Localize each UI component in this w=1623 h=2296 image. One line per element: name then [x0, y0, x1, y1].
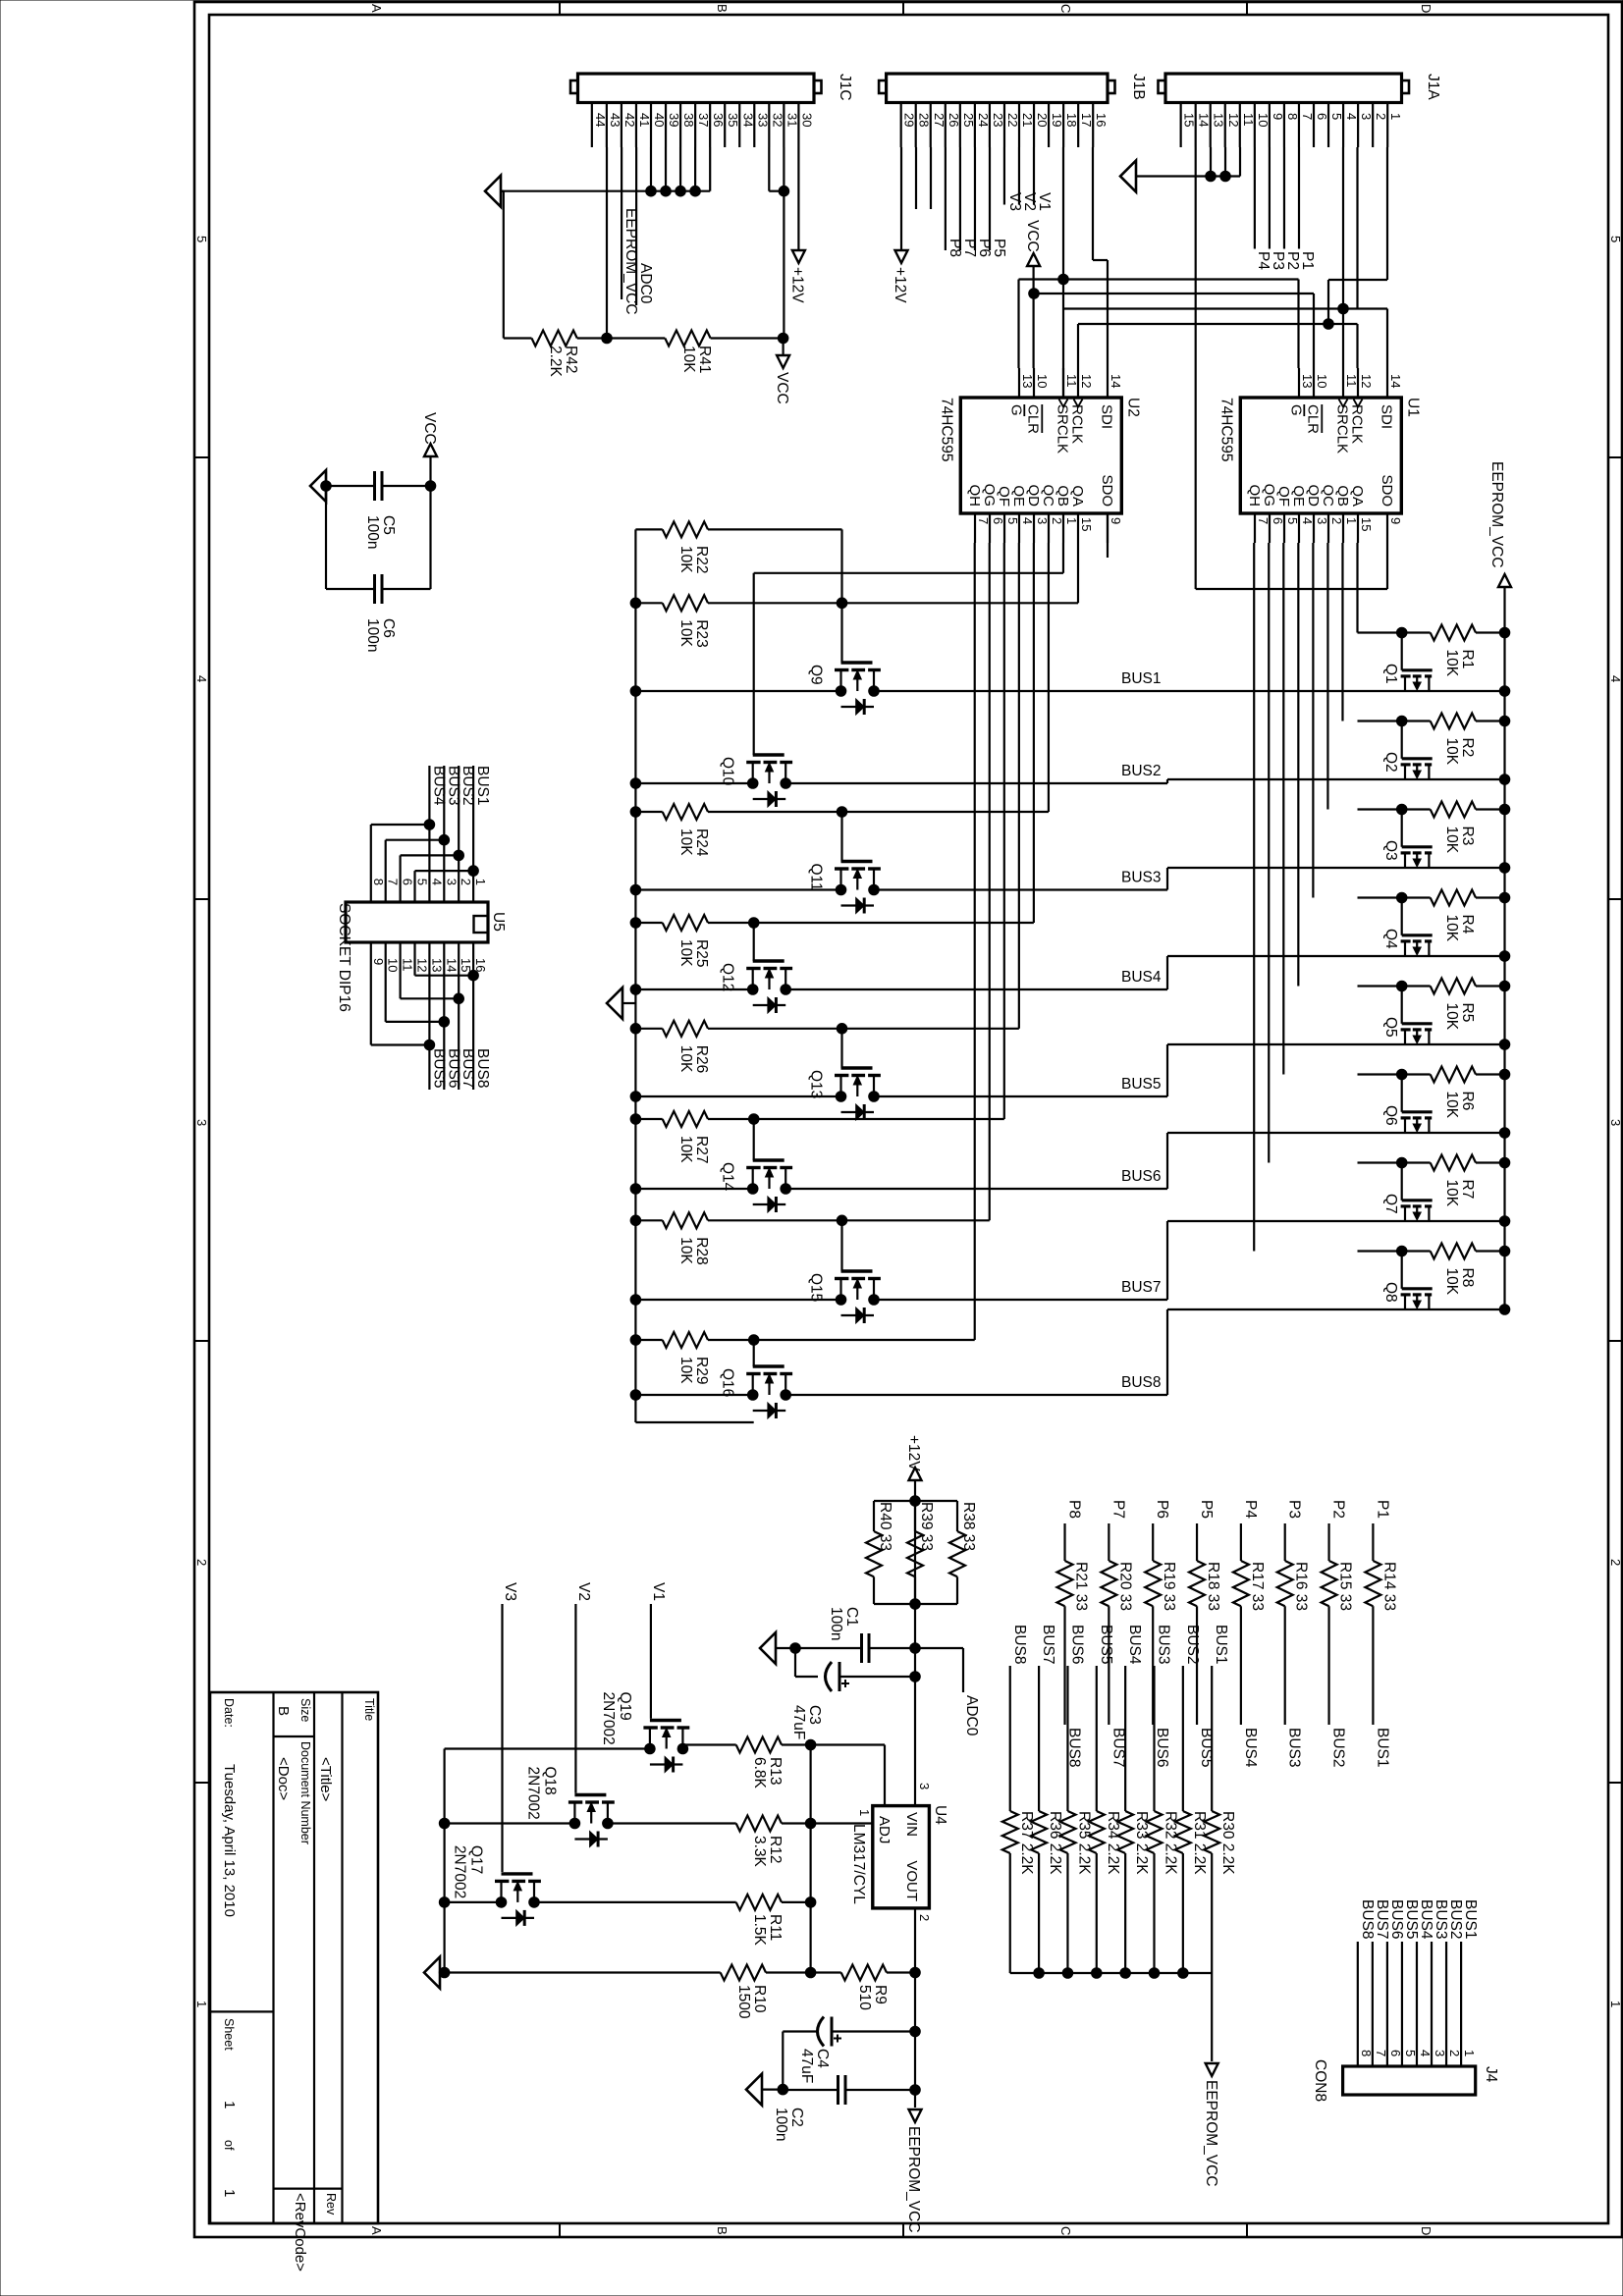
svg-text:Date:: Date:: [222, 1698, 236, 1728]
power +12V arrow: [905, 1435, 922, 1777]
svg-text:26: 26: [947, 113, 961, 127]
wire J1B.18 / U2 SRCLK: [1062, 147, 1064, 398]
transistor Q9: [808, 663, 881, 715]
svg-text:P7: P7: [1109, 1500, 1126, 1519]
svg-text:1: 1: [1344, 517, 1359, 524]
wire source rail Q17-Q19: [439, 1749, 650, 1978]
U5 pin 16: [473, 958, 488, 972]
svg-text:R26: R26: [693, 1045, 710, 1073]
svg-text:42: 42: [622, 113, 637, 127]
svg-text:3: 3: [1035, 517, 1050, 524]
ground arrow below R10: [424, 1957, 440, 1989]
svg-text:R28: R28: [693, 1237, 710, 1264]
wire J1A.4 / U1 SRCLK: [1338, 147, 1349, 368]
svg-text:40: 40: [652, 113, 667, 127]
svg-text:5: 5: [194, 236, 209, 242]
J1C pin 31: [784, 103, 799, 148]
J1B pin 27: [931, 103, 947, 148]
svg-text:10K: 10K: [677, 546, 694, 573]
capacitor C5 100n: [326, 412, 438, 589]
svg-text:SRCLK: SRCLK: [1054, 404, 1070, 454]
resistor R36 2.2K on BUS7: [1031, 1625, 1063, 1973]
svg-text:5: 5: [1005, 517, 1020, 524]
svg-text:R41: R41: [696, 346, 713, 373]
J4 pin 1 BUS1: [1461, 1899, 1479, 2066]
svg-text:16: 16: [473, 958, 488, 972]
junction RCLK rail: [1324, 319, 1334, 330]
U5 pin 6: [401, 879, 415, 885]
svg-text:Q10: Q10: [720, 757, 736, 786]
net label EEPROM_VCC at J1C pin 42: [622, 147, 639, 315]
svg-text:6: 6: [991, 517, 1005, 524]
J1C pin 44: [592, 103, 608, 148]
title block: [210, 1692, 378, 2271]
J1A pin 8: [1284, 103, 1300, 148]
net label P2 at J1A pin 8: [1284, 147, 1301, 270]
J1C pin 36: [710, 103, 726, 148]
transistor Q12: [720, 961, 792, 1013]
net label V2: [575, 1582, 592, 1793]
svg-text:BUS5: BUS5: [1098, 1625, 1114, 1665]
wire U2 QA feed: [842, 543, 1079, 603]
svg-text:U1: U1: [1404, 398, 1421, 417]
svg-text:R15 33: R15 33: [1337, 1562, 1354, 1611]
svg-text:R6: R6: [1459, 1092, 1476, 1111]
svg-text:BUS2: BUS2: [1121, 763, 1162, 779]
net label ADC0 at J1C pin 41: [636, 147, 654, 305]
svg-text:R16 33: R16 33: [1293, 1562, 1310, 1611]
svg-text:2: 2: [194, 1559, 209, 1566]
svg-text:BUS1: BUS1: [1374, 1728, 1390, 1768]
svg-text:ADJ: ADJ: [876, 1816, 893, 1843]
wire BUS8 lower: [630, 1390, 1167, 1401]
svg-text:7: 7: [386, 879, 401, 885]
wire BUS8 jog: [1166, 1309, 1168, 1395]
svg-text:9: 9: [1109, 517, 1123, 524]
svg-text:37: 37: [696, 113, 711, 127]
wire CLR rail: [1029, 289, 1314, 368]
svg-text:EEPROM_VCC: EEPROM_VCC: [905, 2126, 922, 2233]
svg-text:BUS1: BUS1: [1121, 670, 1162, 687]
J1B pin 25: [960, 103, 976, 148]
net label BUS5: [1121, 1076, 1162, 1093]
resistor R10 1500: [440, 1965, 768, 2019]
resistor R18 33 net P5 to BUS5: [1189, 1500, 1221, 1768]
svg-text:R10: R10: [751, 1985, 768, 2013]
svg-text:33: 33: [755, 113, 770, 127]
svg-text:2N7002: 2N7002: [524, 1767, 541, 1820]
power +12V at J1B pin 29: [892, 147, 908, 303]
zone numbers bottom: [194, 236, 209, 2007]
power VCC at U2 CLR: [1024, 220, 1041, 368]
svg-text:C2: C2: [788, 2108, 805, 2127]
svg-text:BUS7: BUS7: [1109, 1728, 1126, 1768]
J1B pin 17: [1078, 103, 1094, 148]
J1B pin 21: [1019, 103, 1035, 148]
svg-text:Q7: Q7: [1382, 1194, 1399, 1214]
svg-text:10K: 10K: [677, 1136, 694, 1163]
svg-text:2.2K: 2.2K: [547, 346, 564, 378]
svg-text:74HC595: 74HC595: [1217, 398, 1234, 462]
svg-text:BUS8: BUS8: [1359, 1899, 1376, 1940]
wire BUS3 jog: [1166, 868, 1168, 890]
resistor R42 2.2K: [504, 331, 665, 378]
net label V3: [502, 1582, 518, 1872]
ground arrow lower rail: [607, 988, 635, 1019]
transistor Q1: [1382, 627, 1433, 691]
wire BUS4 jog: [1166, 956, 1168, 989]
wire RCLK rail: [1078, 324, 1358, 368]
resistor R29 10K: [630, 1332, 759, 1384]
svg-text:R3: R3: [1459, 827, 1476, 846]
svg-text:QH: QH: [1246, 485, 1263, 507]
svg-text:1500: 1500: [735, 1985, 752, 2019]
svg-text:Q19: Q19: [617, 1692, 633, 1721]
svg-text:10K: 10K: [677, 1357, 694, 1384]
svg-text:2: 2: [1447, 2050, 1462, 2056]
svg-text:R20 33: R20 33: [1116, 1562, 1133, 1611]
wire U2 QC feed: [842, 543, 1049, 812]
wire J1A.3 to SRCLK rail: [1063, 147, 1387, 309]
J1A pin 12: [1225, 103, 1241, 148]
svg-text:1: 1: [221, 2101, 238, 2109]
svg-text:24: 24: [976, 113, 991, 127]
svg-text:C4: C4: [814, 2049, 831, 2068]
svg-text:Q18: Q18: [541, 1767, 558, 1795]
net label P3 at J1A pin 9: [1270, 147, 1286, 270]
wire BUS5 upper: [1167, 1040, 1510, 1050]
svg-text:G: G: [1007, 404, 1024, 416]
svg-text:5: 5: [1608, 236, 1623, 242]
transistor Q13: [808, 1068, 881, 1120]
svg-text:47uF: 47uF: [798, 2049, 815, 2083]
svg-text:32: 32: [770, 113, 784, 127]
svg-text:10: 10: [386, 958, 401, 972]
svg-text:10K: 10K: [1443, 738, 1460, 766]
resistor R5 10K: [1358, 979, 1510, 1031]
svg-text:11: 11: [1344, 374, 1359, 388]
svg-text:R40 33: R40 33: [877, 1502, 893, 1551]
svg-text:+12V: +12V: [905, 1435, 922, 1471]
J1C pin 33: [754, 103, 770, 148]
svg-text:9: 9: [371, 958, 386, 965]
svg-text:QH: QH: [966, 485, 983, 507]
J1B pin 20: [1034, 103, 1050, 148]
svg-text:43: 43: [608, 113, 622, 127]
svg-text:V3: V3: [502, 1582, 518, 1601]
svg-text:3: 3: [444, 879, 459, 885]
svg-text:R39 33: R39 33: [918, 1502, 935, 1551]
J4 pin 2 BUS2: [1446, 1899, 1464, 2066]
svg-text:VCC: VCC: [421, 412, 438, 445]
svg-text:J1B: J1B: [1130, 74, 1147, 100]
wire G net rail: [1019, 274, 1299, 368]
svg-text:3: 3: [194, 1119, 209, 1126]
J1A pin 5: [1328, 103, 1344, 148]
J1C pin 39: [666, 103, 681, 148]
svg-text:27: 27: [932, 113, 947, 127]
svg-text:7: 7: [1256, 517, 1271, 524]
svg-text:41: 41: [637, 113, 652, 127]
ground arrow at J1A pins 11-13: [1120, 147, 1240, 192]
svg-text:10K: 10K: [680, 346, 697, 373]
J1A pin 11: [1240, 103, 1256, 148]
wire BUS5 jog: [1166, 1044, 1168, 1096]
wire J1A.1 to RCLK rail: [1328, 147, 1387, 324]
svg-text:P3: P3: [1286, 1500, 1303, 1519]
resistor R17 33 net P4 to BUS4: [1233, 1500, 1266, 1768]
svg-text:Q3: Q3: [1382, 840, 1399, 861]
svg-text:11: 11: [401, 958, 415, 972]
resistor R23 10K: [630, 595, 847, 647]
svg-text:23: 23: [991, 113, 1005, 127]
svg-text:R37 2.2K: R37 2.2K: [1018, 1811, 1035, 1875]
wire R42 to ground: [501, 191, 504, 339]
svg-text:5: 5: [415, 879, 430, 885]
J1C pin 43: [607, 103, 622, 148]
resistor R34 2.2K on BUS5: [1089, 1625, 1121, 1973]
transistor Q10: [720, 755, 792, 807]
wire U1 QD to R4: [1312, 543, 1314, 898]
svg-text:C3: C3: [806, 1705, 823, 1725]
svg-text:19: 19: [1050, 113, 1064, 127]
resistor R3 10K: [1358, 802, 1510, 854]
net label P4 at J1A pin 10: [1255, 147, 1271, 270]
svg-text:10K: 10K: [677, 828, 694, 856]
resistor R22 10K: [635, 521, 846, 663]
U5 pin 12: [415, 958, 430, 972]
wire U2 QE feed: [842, 543, 1019, 1029]
svg-text:R25: R25: [693, 939, 710, 967]
svg-text:Q1: Q1: [1382, 664, 1399, 684]
wire U5 BUS5: [371, 942, 448, 1090]
wire BUS2 upper: [1167, 774, 1510, 785]
J1A pin 4: [1343, 103, 1359, 148]
wire J1B.16 to U2 SDI: [1093, 147, 1108, 368]
resistor R30 2.2K on BUS1: [1204, 1625, 1236, 1973]
J1C pin 35: [725, 103, 740, 148]
wire BUS7 lower: [630, 1295, 1167, 1306]
resistor R13 6.8K: [682, 1737, 885, 1806]
svg-text:Q6: Q6: [1382, 1105, 1399, 1126]
wire BUS3 upper: [1167, 863, 1510, 874]
svg-text:21: 21: [1020, 113, 1035, 127]
wire gate Q13: [840, 1029, 842, 1068]
svg-text:EEPROM_VCC: EEPROM_VCC: [622, 208, 639, 315]
transistor Q8: [1382, 1246, 1433, 1309]
svg-text:5: 5: [1329, 113, 1344, 120]
svg-text:10K: 10K: [1443, 650, 1460, 677]
svg-text:11: 11: [1064, 374, 1079, 388]
svg-text:D: D: [1419, 2226, 1434, 2235]
svg-text:P8: P8: [947, 239, 963, 257]
svg-text:V1: V1: [650, 1582, 667, 1601]
svg-text:B: B: [715, 2226, 730, 2235]
svg-text:17: 17: [1079, 113, 1094, 127]
resistor R41 10K: [665, 331, 783, 374]
svg-text:G: G: [1287, 404, 1304, 416]
svg-text:35: 35: [726, 113, 740, 127]
svg-text:VIN: VIN: [903, 1812, 920, 1837]
J4 pin 7 BUS7: [1373, 1899, 1390, 2066]
svg-text:R11: R11: [767, 1914, 784, 1941]
svg-text:13: 13: [1300, 374, 1315, 388]
resistor R7 10K: [1358, 1155, 1510, 1207]
svg-text:10K: 10K: [677, 1045, 694, 1073]
svg-text:C5: C5: [380, 515, 397, 535]
svg-text:Q12: Q12: [720, 963, 736, 991]
J1A pin 1: [1387, 103, 1403, 148]
J1B pin 22: [1004, 103, 1020, 148]
svg-text:Q15: Q15: [808, 1273, 825, 1302]
svg-text:<Title>: <Title>: [317, 1757, 334, 1802]
J1A pin 3: [1358, 103, 1374, 148]
J1B pin 18: [1063, 103, 1079, 148]
U5 pin 13: [429, 958, 444, 972]
svg-text:3: 3: [1315, 517, 1329, 524]
svg-text:6.8K: 6.8K: [751, 1757, 768, 1789]
resistor R9 510: [766, 1965, 920, 2011]
wire BUS4 upper: [1167, 951, 1510, 962]
J1B pin 28: [916, 103, 932, 148]
resistor R4 10K: [1358, 890, 1510, 942]
svg-text:R18 33: R18 33: [1205, 1562, 1221, 1611]
svg-text:BUS2: BUS2: [1184, 1625, 1201, 1665]
U5 pin 5: [415, 879, 430, 885]
svg-text:13: 13: [1212, 113, 1226, 127]
svg-text:BUS4: BUS4: [1126, 1625, 1143, 1665]
wire VOUT rail: [914, 1937, 916, 2108]
resistor R39 33: [907, 1496, 935, 1610]
net label BUS6: [1121, 1168, 1162, 1185]
resistor R20 33 net P7 to BUS7: [1101, 1500, 1133, 1768]
svg-text:ADC0: ADC0: [963, 1695, 980, 1736]
svg-text:R21 33: R21 33: [1073, 1562, 1090, 1611]
svg-text:1: 1: [1064, 517, 1079, 524]
svg-text:SDI: SDI: [1098, 404, 1114, 429]
svg-text:5: 5: [1403, 2050, 1418, 2056]
connector J1A: [1159, 74, 1442, 103]
shift register U2 74HC595: [938, 368, 1141, 543]
svg-text:4: 4: [1020, 517, 1035, 524]
svg-text:R24: R24: [693, 828, 710, 857]
svg-text:<Doc>: <Doc>: [275, 1757, 292, 1800]
svg-text:C: C: [1058, 2226, 1073, 2235]
J1B pin 16: [1093, 103, 1109, 148]
svg-text:BUS5: BUS5: [1121, 1076, 1162, 1093]
wire BUS8 upper: [1167, 1305, 1510, 1315]
svg-text:12: 12: [1359, 374, 1374, 388]
svg-text:J1A: J1A: [1425, 74, 1441, 100]
svg-text:Size: Size: [298, 1698, 312, 1722]
svg-text:<RevCode>: <RevCode>: [292, 2193, 308, 2271]
power EEPROM_VCC rail top: [1488, 461, 1511, 1309]
J1B pin 23: [990, 103, 1005, 148]
svg-text:44: 44: [593, 113, 608, 127]
svg-text:R29: R29: [693, 1357, 710, 1384]
svg-text:A: A: [369, 2226, 384, 2235]
svg-text:U5: U5: [490, 912, 507, 932]
J1A pin 9: [1270, 103, 1285, 148]
svg-text:1.5K: 1.5K: [751, 1914, 768, 1947]
svg-text:14: 14: [1109, 374, 1123, 388]
zone letters left: [369, 4, 1434, 13]
svg-text:BUS4: BUS4: [430, 766, 447, 806]
wire BUS6 jog: [1166, 1133, 1168, 1189]
connector J1B: [879, 74, 1147, 103]
svg-text:10: 10: [1315, 374, 1329, 388]
svg-text:7: 7: [1374, 2050, 1388, 2056]
svg-text:BUS3: BUS3: [1156, 1625, 1172, 1665]
svg-text:Title: Title: [362, 1698, 376, 1721]
svg-text:C1: C1: [843, 1607, 860, 1627]
wire BUS1 upper: [1167, 686, 1510, 697]
U5 pin 3: [444, 879, 459, 885]
svg-text:BUS7: BUS7: [1121, 1279, 1162, 1296]
svg-text:D: D: [1419, 4, 1434, 13]
net label P8 at J1B pin 26: [946, 147, 963, 257]
resistor R37 2.2K on BUS8: [1002, 1625, 1035, 1973]
svg-text:BUS6: BUS6: [1068, 1625, 1085, 1665]
wire U1 QH to R8: [1253, 543, 1255, 1252]
rail lower common: [634, 529, 636, 1422]
svg-text:SDI: SDI: [1378, 404, 1394, 429]
wire U5 BUS8: [415, 942, 492, 1090]
svg-text:4: 4: [429, 879, 444, 885]
resistor R35 2.2K on BUS6: [1060, 1625, 1093, 1973]
ground arrow at C2/C4: [746, 2074, 783, 2106]
svg-text:of: of: [222, 2140, 236, 2151]
power +12V at J1C pin 30: [788, 147, 805, 303]
J4 pin 4 BUS4: [1417, 1899, 1434, 2066]
wire U2 QD feed: [754, 543, 1034, 923]
svg-text:12: 12: [1226, 113, 1241, 127]
svg-text:R32 2.2K: R32 2.2K: [1163, 1811, 1179, 1875]
svg-text:10: 10: [1035, 374, 1050, 388]
svg-text:CLR: CLR: [1304, 404, 1321, 434]
power VCC at R41: [774, 333, 790, 404]
transistor Q14: [720, 1160, 792, 1212]
svg-text:100n: 100n: [364, 618, 381, 652]
svg-text:Rev: Rev: [324, 2193, 338, 2216]
svg-text:20: 20: [1035, 113, 1050, 127]
transistor Q4: [1382, 892, 1433, 956]
svg-text:Q4: Q4: [1382, 929, 1399, 949]
zone numbers top: [1608, 236, 1623, 2007]
svg-text:+12V: +12V: [892, 267, 908, 303]
net label P5 at J1B pin 23: [990, 147, 1007, 257]
resistor R32 2.2K on BUS3: [1147, 1625, 1179, 1973]
svg-text:Sheet: Sheet: [222, 2018, 236, 2051]
ground arrow at C1: [760, 1632, 795, 1664]
net label V1: [650, 1582, 667, 1719]
resistor R1 10K: [1358, 625, 1510, 677]
wire U2 QB feed: [754, 543, 1063, 573]
svg-text:B: B: [715, 4, 730, 13]
svg-text:R8: R8: [1459, 1268, 1476, 1288]
svg-text:10K: 10K: [677, 1237, 694, 1264]
resistor R2 10K: [1358, 714, 1510, 766]
svg-text:R14 33: R14 33: [1380, 1562, 1397, 1611]
resistor R24 10K: [630, 804, 847, 857]
svg-text:28: 28: [917, 113, 932, 127]
J1A pin 15: [1181, 103, 1197, 148]
svg-text:R35 2.2K: R35 2.2K: [1075, 1811, 1092, 1875]
svg-text:EEPROM_VCC: EEPROM_VCC: [1203, 2080, 1219, 2187]
svg-text:LM317/CYL: LM317/CYL: [850, 1824, 867, 1904]
J4 pin 3 BUS3: [1432, 1899, 1449, 2066]
resistor R12 3.3K: [608, 1816, 873, 1868]
